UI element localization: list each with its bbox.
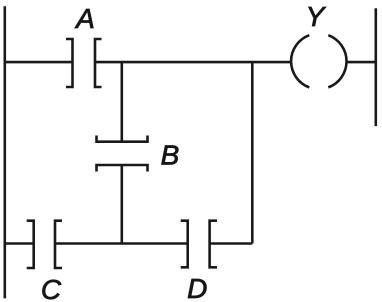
contact C left bracket <box>27 221 34 268</box>
left power rail <box>4 6 7 298</box>
contact A left bracket <box>66 39 73 87</box>
contact B top bar <box>97 136 148 142</box>
wire right branch up to top rung <box>251 62 254 243</box>
svg-text:A: A <box>74 3 95 34</box>
svg-text:C: C <box>41 274 62 302</box>
svg-text:D: D <box>187 273 207 302</box>
contact B bottom bar <box>97 165 148 172</box>
coil Y right arc <box>328 35 346 87</box>
wire coil Y to right rail <box>347 61 376 64</box>
contact C right bracket <box>55 221 62 268</box>
wire node after A down to contact B <box>121 62 124 142</box>
wire left rail to contact A <box>5 61 73 64</box>
wire contact D to right branch <box>210 242 253 245</box>
svg-text:B: B <box>161 140 180 171</box>
contact D left bracket <box>181 221 188 268</box>
svg-text:Y: Y <box>306 1 327 32</box>
wire contact B down to bottom rung <box>121 165 124 244</box>
contact A right bracket <box>95 39 102 87</box>
contact D right bracket <box>210 221 217 268</box>
wire contact C to contact D <box>55 242 188 245</box>
wire left rail to contact C <box>5 242 34 245</box>
wire contact A to coil Y <box>95 61 291 64</box>
right power rail <box>374 8 377 126</box>
coil Y left arc <box>291 35 309 87</box>
